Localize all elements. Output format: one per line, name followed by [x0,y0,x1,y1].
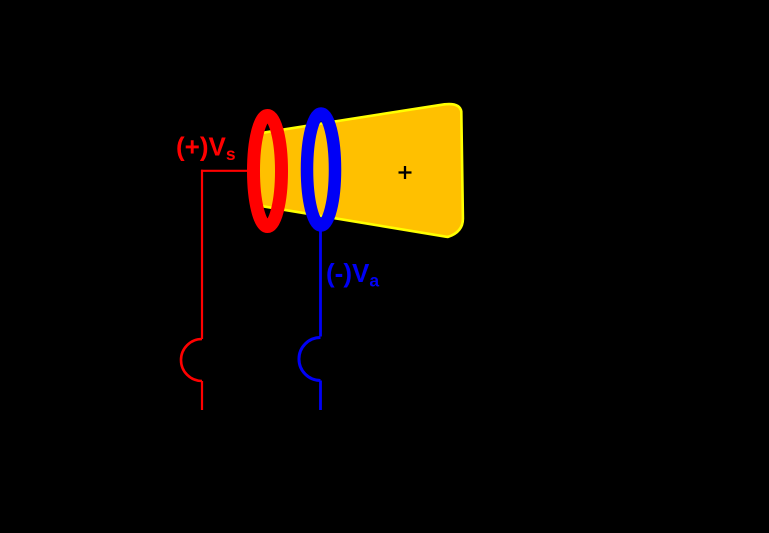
wire red vertical down [201,170,203,339]
wire red below hook [201,381,203,410]
wire red horizontal from (+)Vs node to red ring [201,170,248,172]
anode plate (+) gold trapezoid [257,104,463,237]
plus label (+) inside anode [399,166,412,179]
red ring electrode (signal grid) [254,116,282,227]
blue ring electrode (accelerating grid) [307,114,335,226]
terminal hook red (half-circle) [181,339,202,381]
wire blue vertical from blue ring down [319,226,322,337]
wire blue below hook [319,381,322,411]
terminal hook blue (half-circle) [299,337,321,380]
